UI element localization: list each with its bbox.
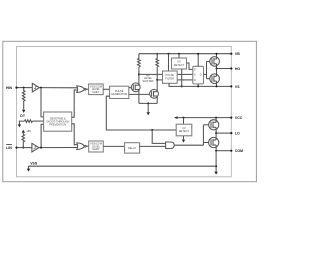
node HIN pulldown junction: [23, 87, 25, 89]
ground arrow COM bottom: [214, 172, 218, 175]
wire VCC to UV detect 2 top: [183, 118, 185, 125]
wire Q6 drain to LO line: [215, 133, 217, 140]
transistor Q1 level shift FET: [131, 83, 140, 92]
node latch VB tap: [197, 53, 199, 55]
wire AND output to driver gates: [174, 144, 203, 146]
node COM junction: [215, 150, 217, 152]
wire Q3 source to HO: [216, 64, 218, 69]
node Q4 VS: [216, 85, 218, 87]
svg-text:FILTER: FILTER: [165, 77, 174, 81]
resistor LIN pull-up: [22, 132, 25, 148]
node HO pin: [230, 67, 232, 69]
wire NOR1 to level shift 1: [86, 88, 89, 90]
logic gate NOR1 high side: [77, 86, 85, 93]
wire level shift 2 to delay: [103, 145, 124, 147]
ground arrow UV detect 2 to VSS: [182, 140, 185, 143]
wire COM line: [216, 150, 231, 152]
node buffer1 output junction: [40, 87, 42, 89]
node HIN pin: [15, 87, 17, 89]
svg-text:SHIFT: SHIFT: [92, 147, 100, 151]
wire Q5 source to LO: [215, 127, 217, 133]
wire pulse generator out2 to Q2 gate: [129, 93, 150, 95]
wire UV detect to latch top input: [187, 63, 193, 69]
svg-text:SHIFTER: SHIFTER: [142, 79, 153, 83]
wire VB rail: [139, 53, 231, 55]
resistor R1 high voltage left: [138, 54, 141, 67]
wire VB to pulse filter top: [168, 54, 170, 71]
node LO junction: [215, 132, 217, 134]
node UV2 line branch junction: [151, 129, 153, 131]
block VSS/COM level shift 2: [89, 141, 104, 152]
node UV bottom on VS line: [181, 85, 183, 87]
node Q1 drain tap: [138, 73, 140, 75]
block pulse filter: [163, 71, 178, 83]
node HO junction: [216, 68, 218, 70]
wire DT left end: [19, 121, 24, 124]
block UV detect low side: [176, 124, 192, 136]
wire NOR2 to level shift 2: [86, 145, 89, 147]
block UV detect high side: [172, 58, 187, 69]
svg-text:VSS: VSS: [30, 162, 38, 166]
wire LIN branch up to deadtime block: [41, 124, 44, 147]
wire Q2 drain tap to pulse filter: [157, 79, 162, 81]
block pulse generator: [110, 86, 129, 98]
svg-text:+5V: +5V: [26, 130, 31, 133]
wire deadtime out2 down to NOR2: [72, 124, 78, 145]
wire level shift 1 to pulse generator: [103, 88, 109, 90]
wire Q4 source to VS line: [216, 81, 218, 86]
wire Q1 drain up: [138, 67, 140, 86]
node VCC driver tap: [215, 117, 217, 119]
block deadtime shoot-through prevention: [44, 112, 72, 131]
transistor Q2 level shift FET: [150, 89, 159, 98]
ground arrow DT net: [18, 124, 21, 127]
resistor DT series: [25, 120, 33, 123]
wire VB to UV detect top: [178, 54, 180, 58]
wire Q2 drain up: [156, 67, 158, 92]
svg-text:R: R: [194, 79, 196, 82]
wire pulse filter to latch S: [177, 73, 193, 75]
block VSS/COM level shift 1: [89, 84, 104, 95]
wire LO line: [216, 132, 231, 134]
node buffer2 output junction: [40, 147, 42, 149]
wire latch top to VB rail: [197, 54, 199, 67]
wire LIN input: [17, 147, 32, 149]
power arrow VCC rail left end: [174, 116, 178, 119]
node VB rail pulse filter tap: [168, 53, 170, 55]
wire HIN input: [17, 87, 33, 89]
wire buffer1 output to NOR1: [39, 87, 78, 89]
op-amp input buffer U2 LIN Schmitt trigger: [32, 143, 39, 152]
wire delay to AND gate input: [140, 145, 166, 147]
wire UV detect bottom to VS line: [181, 69, 183, 86]
wire Q2 source down: [156, 96, 158, 103]
wire UV detect 2 bottom: [183, 136, 185, 140]
svg-text:VS: VS: [235, 85, 240, 89]
wire UV detect 2 line to AND gate input: [152, 130, 165, 143]
svg-text:PREVENTION: PREVENTION: [49, 122, 66, 126]
wire DT resistor to deadtime block: [33, 120, 44, 122]
wire high side gate bus: [206, 61, 208, 78]
node R2 top on VB rail: [156, 53, 158, 55]
node Q2 drain tap: [156, 79, 158, 81]
svg-text:PULSE: PULSE: [115, 89, 124, 93]
latch U3 RS latch: [193, 66, 204, 84]
logic gate NOR2 low side: [77, 143, 85, 150]
svg-text:Q: Q: [200, 73, 202, 76]
logic gate AND low side: [166, 142, 175, 149]
svg-text:HO: HO: [235, 67, 241, 71]
wire pulse generator out1 to Q1 gate: [129, 87, 132, 89]
svg-text:DETECT: DETECT: [174, 63, 185, 67]
svg-text:VCC: VCC: [235, 116, 243, 120]
wire Q5 drain to VCC: [215, 118, 217, 123]
power arrow +5V pull-up: [22, 130, 25, 133]
wire pulse generator feedback to UV detect 2 line: [106, 96, 176, 130]
svg-text:VB: VB: [235, 52, 240, 56]
node VCC pin: [230, 117, 232, 119]
border frame: [3, 41, 257, 181]
node VCC UV tap: [183, 117, 185, 119]
svg-text:GENERATOR: GENERATOR: [111, 92, 127, 96]
wire VSS rail: [29, 166, 217, 168]
svg-text:DELAY: DELAY: [128, 146, 137, 150]
wire buffer2 output to NOR2: [39, 147, 78, 149]
svg-text:LIN: LIN: [6, 146, 12, 150]
wire Q4 drain to HO line: [216, 69, 218, 77]
wire COM down to VSS rail: [215, 151, 217, 172]
node LIN pin: [15, 147, 17, 149]
wire VCC line: [177, 117, 232, 119]
resistor HIN pulldown: [22, 88, 25, 110]
transistor Q6 low side driver lower: [209, 137, 219, 147]
ground arrow HIN pulldown to VSS: [22, 110, 25, 113]
wire latch bottom to VS line: [197, 84, 199, 87]
svg-text:R: R: [194, 69, 196, 72]
svg-text:SHIFT: SHIFT: [92, 90, 100, 94]
node latch bottom on VS line: [197, 85, 199, 87]
wire latch Q output to driver gates: [204, 73, 207, 75]
ground arrow VSS left end: [27, 169, 31, 172]
op-amp input buffer U1 HIN Schmitt trigger: [32, 83, 39, 92]
node COM pin: [230, 150, 232, 152]
svg-text:HIN: HIN: [6, 86, 13, 90]
wire pulse filter to latch R: [177, 79, 193, 81]
transistor Q5 low side driver upper: [209, 120, 219, 130]
node Q3 VB: [216, 53, 218, 55]
svg-text:COM: COM: [235, 149, 243, 153]
node sources junction: [147, 102, 149, 104]
node LO pin: [230, 132, 232, 134]
svg-text:DETECT: DETECT: [179, 129, 190, 133]
transistor Q4 high side driver lower: [210, 74, 220, 84]
wire Q3 drain to VB: [216, 54, 218, 59]
wire Q1 drain tap to pulse filter: [139, 73, 163, 75]
wire HO line: [217, 68, 232, 70]
wire low side gate bus: [202, 125, 204, 145]
resistor R2 high voltage right: [156, 54, 159, 67]
wire HIN branch down to deadtime block: [41, 88, 44, 117]
IC boundary box: [17, 47, 232, 177]
wire level shift sources rail: [139, 102, 157, 104]
ground arrow sources to VS: [146, 112, 150, 115]
node VS pin: [230, 85, 232, 87]
wire deadtime out1 up to NOR1: [72, 90, 78, 117]
transistor Q3 high side driver upper: [210, 57, 220, 67]
wire pulse filter bottom to VS line: [169, 83, 231, 86]
node VB rail UV tap: [178, 53, 180, 55]
svg-text:LO: LO: [235, 132, 240, 136]
node COM VSS junction: [215, 165, 217, 167]
block delay: [125, 143, 140, 153]
wire Q6 source to COM: [215, 145, 217, 151]
wire Q1 source down: [138, 90, 140, 104]
node VB pin: [230, 53, 232, 55]
node LIN pull-up junction: [22, 147, 24, 149]
wire sources to VS arrow: [147, 103, 149, 112]
